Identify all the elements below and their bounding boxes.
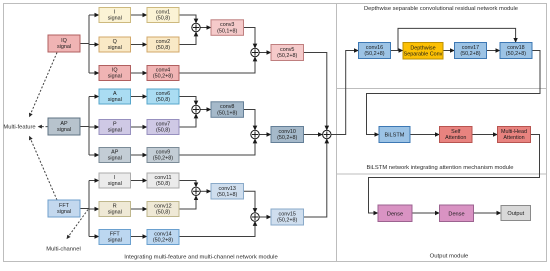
- svg-text:Multi-Head: Multi-Head: [501, 129, 527, 135]
- svg-text:signal: signal: [108, 45, 122, 51]
- svg-text:R: R: [113, 204, 117, 210]
- box self attention: [440, 127, 473, 143]
- box source AP signal: [48, 118, 80, 135]
- wire g1 trunk to row1: [89, 14, 99, 16]
- wire conv15 to merge adder: [304, 139, 327, 217]
- svg-text:Attention: Attention: [445, 135, 466, 141]
- box input A signal: [99, 89, 131, 104]
- svg-text:(50,8): (50,8): [156, 210, 170, 216]
- svg-text:signal: signal: [108, 128, 122, 134]
- wire g1 row1 to conv: [131, 14, 147, 16]
- box dense 2: [440, 205, 474, 222]
- svg-text:(50,1+8): (50,1+8): [217, 110, 237, 116]
- svg-text:conv14: conv14: [154, 232, 171, 238]
- wire g3 source to trunk: [80, 208, 89, 210]
- svg-text:P: P: [113, 122, 117, 128]
- wire merge adder to conv16: [331, 51, 358, 135]
- svg-text:signal: signal: [108, 156, 122, 162]
- wire g3 convA to adder b: [244, 191, 256, 212]
- box conv12: [147, 202, 179, 217]
- svg-text:conv18: conv18: [507, 45, 524, 51]
- wire g1 adder a out: [200, 27, 210, 29]
- wire g2 trunk to row2: [89, 126, 99, 128]
- box conv11: [147, 173, 179, 188]
- wire conv10 to merge adder: [304, 134, 323, 136]
- svg-text:Multi-feature: Multi-feature: [3, 125, 35, 131]
- wire g1 trunk: [88, 15, 90, 73]
- box source FFT signal: [48, 200, 80, 217]
- wire g1 conv row3 to adder b: [179, 57, 255, 73]
- wire g3 row2 to conv: [131, 208, 147, 210]
- svg-text:conv7: conv7: [156, 122, 170, 128]
- svg-text:signal: signal: [108, 181, 122, 187]
- svg-text:(50,8): (50,8): [156, 97, 170, 103]
- svg-text:signal: signal: [108, 210, 122, 216]
- svg-text:conv5: conv5: [280, 47, 294, 53]
- wire g2 trunk: [88, 97, 90, 156]
- svg-text:(50,2+8): (50,2+8): [364, 51, 384, 57]
- svg-text:Q: Q: [113, 39, 117, 45]
- adder symbol adder g3a: [192, 187, 200, 195]
- svg-text:FFT: FFT: [59, 203, 70, 209]
- svg-text:signal: signal: [57, 127, 71, 133]
- box input I signal fft: [99, 173, 131, 188]
- wire g2 row3 to conv: [131, 154, 147, 156]
- wire dense1 to dense2: [412, 212, 439, 214]
- wire g3 conv row1 to adder: [179, 181, 196, 187]
- wire g3 conv row3 to adder b: [179, 222, 255, 237]
- adder symbol adder merge: [323, 130, 331, 138]
- box conv15: [271, 209, 304, 225]
- box input R signal: [99, 202, 131, 217]
- svg-text:(50,1+8): (50,1+8): [217, 28, 237, 34]
- box input P signal: [99, 120, 131, 135]
- wire g1 trunk to row3: [89, 72, 99, 74]
- box output: [501, 206, 531, 221]
- wire g2 row2 to conv: [131, 126, 147, 128]
- svg-text:conv16: conv16: [366, 45, 383, 51]
- wire g1 conv row1 to adder: [179, 15, 196, 23]
- svg-text:signal: signal: [108, 74, 122, 80]
- svg-text:signal: signal: [108, 238, 122, 244]
- svg-text:(50,8): (50,8): [156, 181, 170, 187]
- wire g2 conv row3 to adder b: [179, 139, 255, 155]
- svg-text:conv1: conv1: [156, 10, 170, 16]
- adder symbol adder g2a: [192, 105, 200, 113]
- wire g1 source to trunk: [80, 43, 89, 45]
- box conv14: [147, 230, 179, 245]
- svg-text:Separable Conv: Separable Conv: [404, 51, 443, 57]
- box input FFT signal row: [99, 230, 131, 245]
- box input AP signal row: [99, 148, 131, 163]
- svg-text:AP: AP: [111, 150, 119, 156]
- svg-text:conv8: conv8: [220, 104, 234, 110]
- wire self attention to multi-head attention: [472, 134, 497, 136]
- svg-text:Attention: Attention: [503, 135, 524, 141]
- svg-text:BiLSTM network integrating att: BiLSTM network integrating attention mec…: [367, 165, 514, 171]
- box multi-head attention: [498, 127, 531, 143]
- svg-text:signal: signal: [108, 16, 122, 22]
- panel divider bottom right: [337, 173, 547, 175]
- svg-text:Depthwise: Depthwise: [410, 45, 435, 51]
- wire g2 conv row1 to adder: [179, 97, 196, 105]
- box conv8: [211, 102, 244, 118]
- adder symbol adder g1b: [251, 48, 259, 56]
- svg-text:conv4: conv4: [156, 68, 170, 74]
- box conv17: [455, 43, 487, 59]
- svg-text:(50,2+8): (50,2+8): [277, 53, 297, 59]
- svg-text:(50,1+8): (50,1+8): [217, 192, 237, 198]
- svg-text:I: I: [114, 10, 116, 16]
- svg-text:(50,8): (50,8): [156, 128, 170, 134]
- svg-text:BiLSTM: BiLSTM: [385, 133, 405, 139]
- svg-text:conv17: conv17: [462, 45, 479, 51]
- box conv16: [359, 43, 391, 59]
- wire conv17 to conv18: [487, 50, 500, 52]
- wire g3 conv row2 to adder: [179, 196, 196, 209]
- wire g3 row1 to conv: [131, 180, 147, 182]
- wire g1 adder b out: [259, 52, 270, 54]
- wire g2 adder a out: [200, 109, 210, 111]
- svg-text:conv11: conv11: [155, 175, 172, 181]
- svg-text:conv10: conv10: [279, 129, 296, 135]
- wire multi-head attention to dense: [369, 135, 540, 214]
- box BiLSTM: [379, 127, 410, 143]
- wire BiLSTM to self attention: [410, 134, 439, 136]
- wire g2 convA to adder b: [244, 110, 256, 130]
- dashed arrow FFT signal to multi-feature label: [30, 137, 58, 201]
- wire g3 trunk to row3: [89, 236, 99, 238]
- svg-text:(50,8): (50,8): [156, 45, 170, 51]
- dashed arrow to multi-channel label: [67, 210, 88, 239]
- svg-text:(50,2+8): (50,2+8): [153, 238, 173, 244]
- box conv3: [211, 20, 244, 36]
- svg-text:Integrating multi-feature and: Integrating multi-feature and multi-chan…: [124, 254, 278, 260]
- wire skip connection to conv18: [398, 28, 516, 50]
- svg-text:A: A: [113, 91, 117, 97]
- wire conv18 to BiLSTM: [367, 51, 541, 135]
- svg-text:I: I: [114, 175, 116, 181]
- box input I signal: [99, 8, 131, 23]
- wire g2 trunk to row1: [89, 96, 99, 98]
- wire g3 adder a out: [200, 190, 210, 192]
- adder symbol adder g3b: [251, 213, 259, 221]
- svg-text:conv6: conv6: [156, 91, 170, 97]
- panel divider top right: [337, 88, 547, 90]
- wire g3 row3 to conv: [131, 236, 147, 238]
- wire depthwise conv to conv17: [443, 50, 454, 52]
- svg-text:Dense: Dense: [448, 211, 464, 217]
- wire g3 trunk to row2: [89, 208, 99, 210]
- svg-text:Self: Self: [451, 129, 461, 135]
- svg-text:(50,2+8): (50,2+8): [277, 135, 297, 141]
- svg-text:conv3: conv3: [220, 22, 234, 28]
- wire conv5 to merge adder: [304, 53, 327, 130]
- svg-text:conv2: conv2: [156, 39, 170, 45]
- svg-text:Dense: Dense: [387, 211, 403, 217]
- wire g1 convA to adder b: [244, 28, 256, 48]
- svg-text:(50,8): (50,8): [156, 16, 170, 22]
- svg-text:conv12: conv12: [154, 204, 171, 210]
- dashed arrow IQ signal to multi-feature label: [30, 53, 58, 117]
- box source IQ signal: [48, 35, 80, 52]
- svg-text:conv9: conv9: [156, 150, 170, 156]
- wire g2 conv row2 to adder: [179, 114, 196, 127]
- svg-text:Output: Output: [507, 211, 524, 217]
- wire g3 trunk to row1: [89, 180, 99, 182]
- wire g3 adder b out: [259, 216, 270, 218]
- svg-text:conv13: conv13: [219, 186, 236, 192]
- svg-text:Depthwise separable convolutio: Depthwise separable convolutional residu…: [364, 6, 518, 12]
- svg-text:(50,2+8): (50,2+8): [506, 51, 526, 57]
- svg-text:signal: signal: [108, 97, 122, 103]
- wire g2 source to trunk: [80, 126, 89, 128]
- box conv6: [147, 89, 179, 104]
- wire g2 trunk to row3: [89, 154, 99, 156]
- box conv13: [211, 184, 244, 200]
- box conv5: [271, 45, 304, 61]
- box conv9: [147, 148, 179, 163]
- svg-text:(50,2+8): (50,2+8): [460, 51, 480, 57]
- wire dense2 to output: [474, 212, 501, 214]
- box conv4: [147, 66, 179, 81]
- panel divider vertical: [336, 4, 338, 262]
- wire g1 row3 to conv: [131, 72, 147, 74]
- adder symbol adder g2b: [251, 130, 259, 138]
- wire g1 row2 to conv: [131, 44, 147, 46]
- wire g1 trunk to row2: [89, 44, 99, 46]
- svg-text:Output module: Output module: [430, 253, 469, 259]
- svg-text:signal: signal: [57, 209, 71, 215]
- svg-text:Multi-channel: Multi-channel: [46, 247, 80, 253]
- box conv10: [271, 127, 304, 143]
- adder symbol adder g1a: [192, 23, 200, 31]
- dashed arrow AP signal to multi-feature label: [39, 126, 48, 128]
- svg-text:(50,2+8): (50,2+8): [277, 218, 297, 224]
- svg-text:IQ: IQ: [61, 38, 67, 44]
- wire conv16 to depthwise conv: [391, 50, 403, 52]
- box conv1: [147, 8, 179, 23]
- wire g2 adder b out: [259, 134, 270, 136]
- svg-text:AP: AP: [60, 121, 68, 127]
- svg-text:(50,2+8): (50,2+8): [153, 74, 173, 80]
- box conv18: [500, 43, 532, 59]
- wire g1 conv row2 to adder: [179, 32, 196, 44]
- box dense 1: [378, 205, 412, 222]
- box input Q signal: [99, 37, 131, 52]
- svg-text:signal: signal: [57, 44, 71, 50]
- wire g2 row1 to conv: [131, 96, 147, 98]
- svg-text:(50,2+8): (50,2+8): [153, 156, 173, 162]
- box conv2: [147, 37, 179, 52]
- svg-text:conv15: conv15: [279, 212, 296, 218]
- box conv7: [147, 120, 179, 135]
- wire g3 trunk: [88, 181, 90, 237]
- box input IQ signal row: [99, 66, 131, 81]
- box depthwise separable conv: [403, 43, 443, 60]
- svg-text:IQ: IQ: [112, 68, 118, 74]
- svg-text:FFT: FFT: [110, 232, 121, 238]
